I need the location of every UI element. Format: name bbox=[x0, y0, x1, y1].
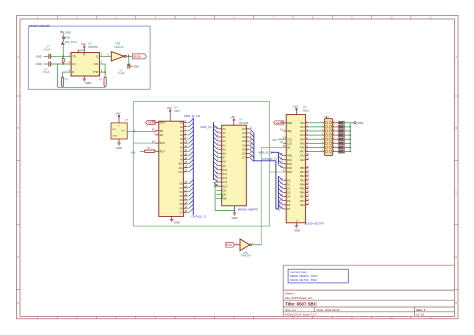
svg-text:GND: GND bbox=[294, 228, 300, 232]
svg-text:RESB: RESB bbox=[276, 121, 284, 125]
svg-text:+5V: +5V bbox=[167, 106, 172, 110]
ROM address bus vertical bbox=[213, 122, 215, 180]
junction at inverter output bbox=[128, 55, 130, 57]
svg-text:RN?: RN? bbox=[324, 116, 330, 119]
svg-text:GND: GND bbox=[36, 55, 42, 59]
VIA CB1 CB2 pins bbox=[306, 200, 309, 202]
global label PHI2 at inverter input bbox=[226, 242, 235, 247]
svg-text:GND: GND bbox=[174, 221, 180, 225]
svg-text:A11: A11 bbox=[223, 172, 228, 176]
VIA chip select CS2 bbox=[283, 142, 286, 144]
svg-text:DIS: DIS bbox=[94, 63, 99, 66]
svg-text:IRQ: IRQ bbox=[287, 129, 292, 133]
svg-text:D7: D7 bbox=[180, 210, 184, 214]
CPU left pins bbox=[155, 122, 159, 124]
svg-text:A8: A8 bbox=[180, 154, 184, 158]
svg-text:0.1uF: 0.1uF bbox=[118, 71, 125, 75]
svg-text:PB3: PB3 bbox=[300, 178, 305, 182]
svg-text:D3: D3 bbox=[287, 191, 291, 195]
svg-text:A9: A9 bbox=[180, 158, 184, 162]
svg-text:Id: 1/1: Id: 1/1 bbox=[417, 313, 425, 317]
VIA data pins D0-D7 with bus entries bbox=[283, 179, 286, 181]
wire RW stub to CPU bbox=[133, 142, 156, 144]
svg-text:KiCad E.D.A. kicad 7.0.7: KiCad E.D.A. kicad 7.0.7 bbox=[285, 313, 317, 317]
svg-text:A: A bbox=[17, 55, 19, 59]
svg-text:CB2: CB2 bbox=[300, 203, 306, 207]
svg-text:D7: D7 bbox=[287, 207, 291, 211]
svg-text:GND: GND bbox=[133, 64, 139, 68]
VIA CA1 CA2 pins bbox=[306, 155, 309, 157]
ground rail vertical at LEDs bbox=[349, 123, 351, 152]
wire clock loop top horizontal bbox=[133, 100, 269, 102]
svg-text:D3: D3 bbox=[180, 194, 184, 198]
svg-text:+5V: +5V bbox=[131, 151, 136, 155]
svg-text:File: 6507.kicad_sch: File: 6507.kicad_sch bbox=[285, 296, 313, 300]
svg-text:$8000->$BFFF: $8000->$BFFF bbox=[238, 207, 258, 211]
svg-text:PB6: PB6 bbox=[300, 191, 305, 195]
capacitor C2 0.1uF bbox=[48, 62, 50, 67]
svg-text:D7: D7 bbox=[242, 156, 246, 160]
VIA left pin IRQ bbox=[283, 130, 286, 132]
svg-text:0.1uF: 0.1uF bbox=[44, 47, 51, 51]
svg-text:6507: 6507 bbox=[174, 109, 180, 113]
svg-text:CA1: CA1 bbox=[300, 154, 306, 158]
svg-text:PHI2: PHI2 bbox=[220, 194, 222, 200]
capacitor C1 0.1uF bbox=[48, 54, 50, 59]
svg-text:PA6: PA6 bbox=[300, 146, 305, 150]
wire clock loop right vertical bbox=[268, 101, 270, 226]
svg-text:RDY: RDY bbox=[160, 149, 166, 153]
svg-text:WE: WE bbox=[223, 197, 227, 201]
svg-text:$8000->$BFFF : ROM: $8000->$BFFF : ROM bbox=[290, 274, 318, 278]
svg-text:DATA[0..7]: DATA[0..7] bbox=[262, 157, 276, 161]
svg-text:RESB: RESB bbox=[133, 55, 141, 59]
power flag GND at LED rail bbox=[350, 122, 354, 124]
svg-text:D2: D2 bbox=[242, 135, 246, 139]
svg-text:GND: GND bbox=[65, 30, 71, 34]
svg-text:E: E bbox=[17, 301, 19, 305]
wire NE555 Q output to inverter bbox=[100, 55, 112, 57]
svg-text:D6: D6 bbox=[287, 203, 291, 207]
ROM data pins IO0-IO7 with bus entries bbox=[246, 128, 249, 130]
svg-text:OE: OE bbox=[223, 193, 227, 197]
svg-text:PA0: PA0 bbox=[300, 121, 305, 125]
svg-text:+5V: +5V bbox=[115, 112, 120, 116]
svg-text:D1: D1 bbox=[180, 186, 184, 190]
svg-text:D2: D2 bbox=[180, 190, 184, 194]
svg-text:PA1: PA1 bbox=[300, 125, 305, 129]
svg-text:B: B bbox=[455, 126, 457, 130]
svg-text:D0: D0 bbox=[287, 178, 291, 182]
svg-text:A12: A12 bbox=[223, 176, 228, 180]
LED bargraph D1-D8 bbox=[338, 121, 344, 124]
svg-text:Title: 6507 SBC: Title: 6507 SBC bbox=[285, 302, 318, 307]
svg-text:+5V: +5V bbox=[293, 104, 298, 108]
svg-text:ADR_[0..3]: ADR_[0..3] bbox=[259, 151, 273, 155]
svg-text:GND: GND bbox=[232, 216, 238, 220]
wire RW stub to 6522 bbox=[269, 171, 286, 173]
svg-text:Φ2: Φ2 bbox=[160, 133, 164, 137]
svg-text:CV: CV bbox=[72, 63, 76, 66]
svg-text:RS2: RS2 bbox=[287, 162, 293, 166]
svg-text:D0: D0 bbox=[242, 127, 246, 131]
svg-text:RS3: RS3 bbox=[287, 166, 293, 170]
svg-text:PB4: PB4 bbox=[300, 182, 305, 186]
memory map text box bbox=[288, 269, 348, 283]
svg-text:$1000->$17FF: $1000->$17FF bbox=[304, 221, 324, 225]
VIA data bus connection stub bbox=[276, 208, 279, 210]
reset circuit text box bbox=[28, 26, 150, 89]
title block frame bbox=[282, 265, 284, 316]
VIA chip select CS1 with +5V label bbox=[279, 138, 286, 140]
wire clock loop left vertical bbox=[132, 101, 134, 226]
svg-text:D5: D5 bbox=[180, 202, 184, 206]
svg-text:U?: U? bbox=[239, 118, 243, 122]
svg-text:reset circuit: reset circuit bbox=[29, 23, 50, 28]
svg-text:Φ2: Φ2 bbox=[287, 146, 291, 150]
svg-text:RESB: RESB bbox=[148, 121, 156, 125]
ROM address pins A0-A14 with bus entries bbox=[219, 128, 222, 130]
power label GND right of capacitor bbox=[132, 65, 133, 67]
wires VIA PA to resistor network bbox=[308, 122, 323, 124]
junction clock node bbox=[133, 130, 135, 132]
svg-text:GND: GND bbox=[113, 136, 118, 138]
svg-text:D: D bbox=[455, 255, 457, 259]
svg-text:+5V: +5V bbox=[272, 138, 277, 142]
svg-text:R: R bbox=[83, 54, 85, 57]
svg-text:TR: TR bbox=[72, 55, 76, 58]
svg-text:Sheet: /: Sheet: / bbox=[285, 292, 296, 296]
svg-text:D4: D4 bbox=[287, 195, 291, 199]
svg-text:6522: 6522 bbox=[303, 108, 309, 112]
wire A13 A14 tie line bbox=[215, 181, 219, 183]
svg-text:ADR_[0..12]: ADR_[0..12] bbox=[200, 125, 217, 129]
global label RESB at CPU reset bbox=[145, 121, 155, 125]
svg-text:D1: D1 bbox=[242, 131, 246, 135]
svg-text:D4: D4 bbox=[180, 198, 184, 202]
crystal oscillator module U3 bbox=[111, 123, 127, 139]
ROM data bus vertical and corner to 6522 bbox=[253, 133, 255, 161]
CPU data pins D0-D7 with bus entries bbox=[184, 183, 187, 185]
wire left branch down to bottom rail bbox=[57, 64, 59, 87]
wires LED cathodes to ground rail bbox=[345, 122, 351, 124]
resistor network RN1 body bbox=[324, 119, 333, 156]
svg-text:Date: 2023-08-30: Date: 2023-08-30 bbox=[317, 308, 340, 312]
CPU data bus vertical bbox=[192, 180, 194, 215]
NE555 power pins and +5V symbol bbox=[77, 50, 79, 53]
svg-text:Q: Q bbox=[96, 55, 98, 58]
wire switch to TR node bbox=[62, 45, 64, 57]
resistor R1 pullup on RDY bbox=[144, 150, 155, 153]
svg-text:RES: RES bbox=[287, 121, 293, 125]
svg-text:74HC14: 74HC14 bbox=[114, 45, 124, 49]
svg-text:74HC04: 74HC04 bbox=[241, 254, 251, 258]
svg-text:PB1: PB1 bbox=[300, 170, 305, 174]
svg-text:A10: A10 bbox=[223, 168, 228, 172]
svg-text:PA2: PA2 bbox=[300, 129, 305, 133]
junction TR node bbox=[62, 55, 64, 57]
svg-text:D: D bbox=[17, 255, 19, 259]
svg-text:A1: A1 bbox=[180, 125, 184, 129]
svg-text:RS1: RS1 bbox=[287, 158, 293, 162]
svg-text:A6: A6 bbox=[180, 145, 184, 149]
svg-text:CS2: CS2 bbox=[287, 141, 293, 145]
svg-text:0.1uF: 0.1uF bbox=[43, 70, 50, 74]
CPU address pins A0-A12 with bus entries bbox=[184, 122, 187, 124]
svg-text:CB1: CB1 bbox=[300, 199, 306, 203]
capacitor C3 filter at output bbox=[127, 64, 129, 69]
svg-text:Rev: 1: Rev: 1 bbox=[417, 308, 426, 312]
svg-text:A11: A11 bbox=[179, 166, 184, 170]
VIA GND pin and symbol bbox=[296, 223, 298, 226]
NE555 R pin wire to left resistor bbox=[63, 71, 72, 73]
inverter U2B 74HC14 bbox=[111, 52, 124, 61]
svg-text:R: R bbox=[72, 71, 74, 74]
svg-text:PA5: PA5 bbox=[300, 141, 305, 145]
svg-text:CS1: CS1 bbox=[287, 137, 293, 141]
global label RESB output bbox=[132, 54, 146, 59]
svg-text:+5V: +5V bbox=[81, 42, 86, 46]
svg-text:D6: D6 bbox=[242, 152, 246, 156]
svg-text:U?: U? bbox=[125, 118, 129, 122]
svg-text:D5: D5 bbox=[287, 199, 291, 203]
svg-text:C: C bbox=[17, 190, 19, 194]
svg-text:28C256: 28C256 bbox=[239, 121, 249, 125]
svg-text:A3: A3 bbox=[180, 133, 184, 137]
svg-text:A12: A12 bbox=[178, 170, 183, 174]
svg-text:ADR_[0..12]: ADR_[0..12] bbox=[184, 114, 201, 118]
svg-text:C: C bbox=[455, 190, 457, 194]
svg-text:D3: D3 bbox=[242, 139, 246, 143]
VIA left pin RES with RESB label bbox=[283, 122, 286, 124]
svg-text:PB2: PB2 bbox=[300, 174, 305, 178]
svg-text:RES: RES bbox=[160, 121, 166, 125]
wire down to filter capacitor bbox=[128, 56, 130, 66]
svg-text:GND: GND bbox=[357, 121, 363, 125]
switch SW1 SW_Push bbox=[62, 37, 64, 39]
CPU address bus vertical bbox=[192, 118, 194, 180]
svg-text:GND: GND bbox=[85, 81, 91, 85]
svg-text:PHI2: PHI2 bbox=[226, 244, 232, 247]
svg-text:THR: THR bbox=[93, 71, 98, 74]
wire CV node to NE555 CV pin bbox=[51, 63, 71, 65]
wire inverter output bbox=[252, 244, 262, 246]
ROM control pins CE OE WE bbox=[217, 189, 222, 191]
wire DIS THR to resistor bbox=[100, 63, 106, 65]
svg-text:PA7: PA7 bbox=[300, 150, 305, 154]
svg-text:A5: A5 bbox=[180, 141, 184, 145]
CPU U4 6507 body bbox=[159, 121, 184, 216]
svg-text:A13: A13 bbox=[223, 180, 228, 184]
resistor R3 left bottom bbox=[61, 77, 63, 86]
svg-text:CA2: CA2 bbox=[300, 158, 306, 162]
inverter U2A 74HC04 clock buffer bbox=[240, 239, 250, 251]
svg-text:B: B bbox=[17, 126, 19, 130]
svg-text:PA4: PA4 bbox=[300, 137, 305, 141]
svg-text:PB0: PB0 bbox=[300, 166, 305, 170]
resistor R2 vertical at switch node bbox=[62, 58, 64, 63]
svg-text:DATA[0..7]: DATA[0..7] bbox=[192, 214, 206, 218]
wire inverter output to RESB label bbox=[126, 55, 132, 57]
svg-text:Φ0: Φ0 bbox=[160, 129, 164, 133]
svg-text:D5: D5 bbox=[242, 147, 246, 151]
svg-text:D0: D0 bbox=[180, 182, 184, 186]
svg-text:NE555P: NE555P bbox=[88, 45, 98, 49]
ROM U5 28C256 body bbox=[222, 125, 247, 206]
svg-text:U?: U? bbox=[303, 105, 307, 109]
svg-text:Size: A4: Size: A4 bbox=[285, 308, 296, 312]
resistor R4 right bottom bbox=[104, 77, 106, 86]
svg-text:A7: A7 bbox=[180, 149, 184, 153]
svg-text:R/W: R/W bbox=[160, 141, 166, 145]
svg-text:A4: A4 bbox=[180, 137, 184, 141]
VIA U6 6522 body bbox=[286, 115, 305, 223]
svg-text:A2: A2 bbox=[180, 129, 184, 133]
svg-text:D6: D6 bbox=[180, 206, 184, 210]
svg-text:CE: CE bbox=[223, 188, 227, 192]
svg-text:D1: D1 bbox=[287, 182, 291, 186]
wire inverted clock vertical to 6522 PHI2 bbox=[260, 147, 262, 244]
svg-text:GND: GND bbox=[36, 62, 42, 66]
VIA register select pins RS0-RS3 with bus entries bbox=[283, 155, 286, 157]
VIA RS bus vertical with label bbox=[277, 152, 279, 164]
svg-text:OUT: OUT bbox=[121, 131, 126, 133]
svg-text:A14: A14 bbox=[223, 184, 228, 188]
svg-text:D4: D4 bbox=[242, 143, 246, 147]
NE555 GND pin and GND symbol bbox=[83, 76, 85, 79]
wire oscillator output to CPU PHI0 bbox=[127, 130, 156, 132]
svg-text:memory map: memory map bbox=[290, 270, 307, 274]
bottom rail wire bbox=[58, 86, 106, 88]
wire ROM ground run bbox=[215, 210, 234, 212]
timer U1 NE555P body bbox=[71, 53, 99, 76]
svg-text:$1000->$17FF : 6522: $1000->$17FF : 6522 bbox=[290, 278, 317, 282]
svg-text:PB7: PB7 bbox=[300, 195, 305, 199]
wire clock loop bottom horizontal bbox=[133, 225, 269, 227]
junction CV node bbox=[62, 63, 64, 65]
svg-text:A10: A10 bbox=[178, 162, 183, 166]
svg-text:EN: EN bbox=[113, 129, 116, 131]
wire TR node to NE555 TR pin bbox=[51, 55, 71, 57]
svg-text:E: E bbox=[455, 301, 457, 305]
svg-text:DATA[0..7]: DATA[0..7] bbox=[277, 200, 280, 211]
svg-text:+5V: +5V bbox=[230, 115, 235, 119]
VIA port B pins PB0-PB7 bbox=[306, 167, 309, 169]
svg-text:SW1: SW1 bbox=[65, 35, 71, 39]
wire switch to GND bbox=[62, 32, 64, 37]
svg-text:SW_Push: SW_Push bbox=[65, 40, 77, 44]
svg-text:PA3: PA3 bbox=[300, 133, 305, 137]
VIA port A pins PA0-PA7 bbox=[306, 122, 309, 124]
svg-text:A0: A0 bbox=[180, 121, 184, 125]
ROM GND pin and symbol bbox=[234, 206, 236, 211]
svg-text:D2: D2 bbox=[287, 187, 291, 191]
svg-text:R/W: R/W bbox=[287, 170, 293, 174]
svg-text:RS0: RS0 bbox=[287, 154, 293, 158]
svg-text:PB5: PB5 bbox=[300, 187, 305, 191]
CPU GND pin and symbol bbox=[171, 216, 173, 219]
svg-text:GND: GND bbox=[116, 146, 122, 150]
oscillator GND symbol bbox=[118, 139, 120, 143]
svg-text:A: A bbox=[455, 55, 457, 59]
